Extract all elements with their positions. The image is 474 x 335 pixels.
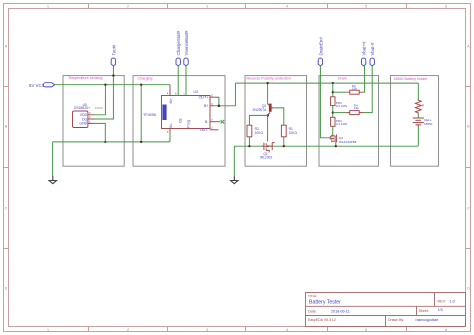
wire R2 bottom	[248, 137, 250, 146]
svg-text:VsenseBatt#: VsenseBatt#	[184, 30, 189, 55]
svg-text:10KΩ: 10KΩ	[289, 131, 298, 135]
svg-text:18650 Battery Holder: 18650 Battery Holder	[394, 77, 429, 81]
svg-text:13k: 13k	[354, 106, 359, 110]
svg-text:Tout#: Tout#	[111, 44, 116, 55]
svg-text:Date:: Date:	[308, 309, 317, 313]
port ChargeStat#	[176, 30, 181, 66]
junction R4 tap	[332, 111, 334, 113]
pin OUT+	[210, 96, 218, 98]
svg-text:Vbat+#: Vbat+#	[362, 41, 367, 56]
svg-text:D: D	[467, 287, 470, 291]
svg-text:EasyEDA V5.3.12: EasyEDA V5.3.12	[308, 318, 336, 322]
svg-text:IRL2003: IRL2003	[260, 156, 272, 160]
svg-text:2N2907A: 2N2907A	[253, 108, 268, 112]
svg-text:6: 6	[445, 328, 447, 332]
svg-text:18650: 18650	[424, 122, 433, 126]
block Temperature sensing	[63, 76, 124, 167]
wire left ground rail	[53, 141, 170, 143]
wire charging left drop	[140, 85, 142, 142]
block 18650 Battery Holder	[391, 76, 439, 167]
svg-text:DQ: DQ	[82, 117, 88, 121]
wire PR4 to Q3	[332, 126, 334, 136]
svg-text:1.0: 1.0	[450, 300, 455, 304]
wire bottom return rail	[234, 145, 418, 147]
svg-text:REV:: REV:	[438, 300, 446, 304]
wire B+ bus top	[235, 82, 418, 84]
port Tout#	[111, 44, 116, 66]
resistor R4 13k	[345, 103, 363, 114]
svg-text:TITLE:: TITLE:	[308, 294, 317, 298]
svg-text:2: 2	[127, 328, 129, 332]
wire R4 left	[333, 112, 346, 114]
svg-text:Charging: Charging	[138, 76, 153, 80]
svg-text:2018-06-11: 2018-06-11	[331, 309, 350, 313]
svg-text:rasmusgodske: rasmusgodske	[416, 318, 439, 322]
svg-text:Drawn By:: Drawn By:	[388, 318, 404, 322]
junction R3 tap	[332, 91, 334, 93]
svg-text:GND: GND	[79, 122, 87, 126]
wire IN- drop	[169, 133, 171, 142]
pin B-	[210, 121, 220, 123]
svg-text:Battery Tester: Battery Tester	[309, 300, 341, 306]
svg-text:U3: U3	[194, 90, 198, 94]
svg-text:CE: CE	[178, 117, 182, 123]
wire DS18B20 GND drop	[94, 123, 105, 141]
wire DrainEn to Q3 gate	[320, 66, 330, 138]
junction R1 rail	[283, 145, 285, 147]
block Drain	[319, 76, 379, 167]
resistor R cell zigzag	[415, 99, 424, 114]
pin B+	[210, 105, 214, 107]
svg-text:C: C	[5, 207, 8, 211]
port 5V VCC	[29, 83, 55, 89]
junction B+ tie	[218, 105, 221, 108]
wire cell to return rail	[417, 127, 419, 147]
junction 5V/charging drop	[140, 84, 142, 86]
svg-text:B+: B+	[204, 104, 209, 108]
port VsenseBatt#	[184, 30, 189, 66]
svg-text:1: 1	[47, 328, 49, 332]
svg-text:5: 5	[365, 5, 367, 9]
IC U3 TP4056	[143, 90, 213, 134]
svg-text:3: 3	[206, 328, 208, 332]
svg-text:D: D	[5, 287, 8, 291]
svg-text:3.3 10W: 3.3 10W	[336, 122, 347, 126]
wire PR3 to PR4	[332, 106, 334, 118]
pin IN+	[169, 85, 171, 96]
svg-text:1/3: 1/3	[438, 308, 443, 312]
wire ChargeStat drop	[177, 66, 179, 96]
title block	[306, 293, 466, 327]
wire Q2 emitter riser	[267, 83, 269, 104]
wire ground stem mid	[233, 146, 235, 176]
svg-text:4: 4	[286, 328, 288, 332]
junction charging drop on rail	[140, 141, 142, 143]
junction B+ at PR3	[332, 82, 334, 84]
transistor Q1 IRL2003	[260, 143, 275, 160]
svg-text:10KΩ: 10KΩ	[255, 131, 264, 135]
port Vbat+#	[361, 41, 366, 66]
svg-text:4800K: 4800K	[95, 106, 104, 110]
wire ground stem left	[52, 142, 54, 177]
wire base to R2	[249, 115, 267, 125]
resistor PR4	[331, 117, 348, 126]
svg-text:5V VCC: 5V VCC	[29, 83, 45, 88]
wire VDD riser	[94, 85, 105, 115]
svg-text:5: 5	[365, 328, 367, 332]
wire Q2 base node	[267, 115, 269, 142]
svg-text:TP4056: TP4056	[143, 113, 156, 117]
wire Q3 source to rail	[335, 141, 337, 146]
wire B+ east	[214, 83, 235, 106]
svg-text:2: 2	[127, 5, 129, 9]
svg-text:6: 6	[445, 5, 447, 9]
transistor Q3 IRLZ44NPBF	[330, 135, 357, 144]
junction wire cross block edge	[112, 74, 114, 76]
wire Q2 collector to R1	[273, 108, 284, 125]
wire R to cell	[417, 114, 419, 118]
wire battery feed drop	[417, 83, 419, 99]
wire PR3 top riser	[332, 83, 334, 97]
wire OUT+ to B+	[217, 97, 220, 106]
transistor Q2 2N2907A	[253, 104, 274, 115]
junction R2 rail	[248, 145, 250, 147]
svg-text:1: 1	[47, 5, 49, 9]
svg-text:Sheet:: Sheet:	[419, 309, 429, 313]
noconnect marker B-	[221, 120, 225, 124]
svg-text:Prog: Prog	[187, 120, 191, 127]
battery CELL 18650	[413, 118, 433, 127]
wire 5V rail	[55, 84, 170, 86]
wire R3 right to Vbat+ port	[364, 66, 365, 92]
svg-text:0.2 10W: 0.2 10W	[336, 104, 347, 108]
junction Q3 rail	[335, 145, 337, 147]
junction Q2 base	[267, 114, 269, 116]
block Reverse Polarity protection	[245, 76, 307, 167]
svg-text:Temperature sensing: Temperature sensing	[68, 76, 102, 80]
port Vbat-#	[370, 42, 375, 66]
pin IN-	[169, 129, 171, 134]
wire R4 right to Vbat- port	[364, 66, 373, 113]
svg-text:Vbat-#: Vbat-#	[370, 42, 375, 55]
block Charging	[133, 76, 225, 167]
svg-text:OUT-: OUT-	[200, 128, 210, 132]
junction 5V/VDD	[104, 84, 106, 86]
svg-text:C: C	[467, 207, 470, 211]
wire DQ to Tout	[94, 66, 113, 119]
wire VsenseBatt drop	[185, 66, 187, 96]
junction GND drop on rail	[104, 141, 106, 143]
svg-text:Reverse Polarity protection: Reverse Polarity protection	[247, 76, 291, 80]
junction B+ at Q2	[266, 82, 268, 84]
svg-text:ChargeStat#: ChargeStat#	[176, 30, 181, 55]
wire R1 bottom	[283, 137, 285, 146]
resistor PR3	[331, 97, 348, 108]
svg-text:DS18B20+: DS18B20+	[74, 106, 90, 110]
svg-text:IN+: IN+	[169, 98, 173, 104]
ground GND1	[49, 176, 56, 183]
sensor U5 DS18B20+	[73, 103, 104, 128]
svg-text:3: 3	[206, 5, 208, 9]
svg-text:OUT+: OUT+	[199, 96, 209, 100]
svg-text:DrainEn#: DrainEn#	[318, 37, 323, 56]
resistor R2 10KOhm	[247, 125, 263, 137]
wire R3 left	[333, 91, 346, 93]
svg-text:13k: 13k	[352, 87, 357, 91]
pin OUT-	[210, 129, 218, 131]
ground GND2	[231, 176, 238, 183]
svg-text:Drain: Drain	[338, 76, 347, 80]
resistor R3 13k	[345, 84, 363, 94]
svg-text:4: 4	[286, 5, 288, 9]
port DrainEn#	[318, 37, 323, 66]
svg-text:IRLZ44NPBF: IRLZ44NPBF	[339, 140, 357, 144]
resistor R1 10KOhm	[281, 125, 297, 137]
